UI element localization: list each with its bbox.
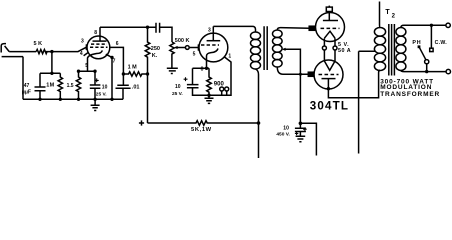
svg-text:250: 250 xyxy=(151,46,160,52)
svg-text:50 A: 50 A xyxy=(338,48,351,54)
svg-text:5: 5 xyxy=(193,52,196,58)
svg-text:3: 3 xyxy=(208,28,211,34)
svg-text:5 K: 5 K xyxy=(34,41,43,47)
svg-text:7: 7 xyxy=(113,58,116,64)
svg-text:PH: PH xyxy=(412,40,421,46)
svg-text:.47: .47 xyxy=(22,83,29,89)
svg-text:C.W.: C.W. xyxy=(435,40,448,46)
svg-text:304TL: 304TL xyxy=(310,99,349,112)
svg-text:K.: K. xyxy=(152,53,158,59)
svg-text:1M: 1M xyxy=(46,82,54,88)
svg-text:.01: .01 xyxy=(132,85,140,91)
svg-text:4: 4 xyxy=(80,51,83,57)
svg-text:1 M: 1 M xyxy=(128,65,138,71)
svg-text:3: 3 xyxy=(81,38,84,44)
svg-text:25 V.: 25 V. xyxy=(96,91,107,97)
svg-text:450 V.: 450 V. xyxy=(276,131,289,137)
svg-text:10: 10 xyxy=(175,84,181,90)
svg-text:1: 1 xyxy=(228,53,231,59)
svg-text:6: 6 xyxy=(116,41,119,47)
svg-text:8: 8 xyxy=(94,30,97,36)
svg-text:1.5: 1.5 xyxy=(67,83,74,89)
svg-text:T: T xyxy=(385,9,390,16)
svg-text:10: 10 xyxy=(283,125,289,131)
svg-text:5K,1W: 5K,1W xyxy=(191,127,212,133)
svg-text:μμF: μμF xyxy=(22,89,31,95)
svg-text:5: 5 xyxy=(85,63,88,69)
svg-text:500 K: 500 K xyxy=(175,38,190,44)
svg-text:900: 900 xyxy=(214,81,225,87)
svg-text:10: 10 xyxy=(102,84,108,90)
svg-text:TRANSFORMER: TRANSFORMER xyxy=(380,91,440,98)
svg-text:25 V.: 25 V. xyxy=(172,91,183,97)
svg-text:8: 8 xyxy=(201,67,204,73)
